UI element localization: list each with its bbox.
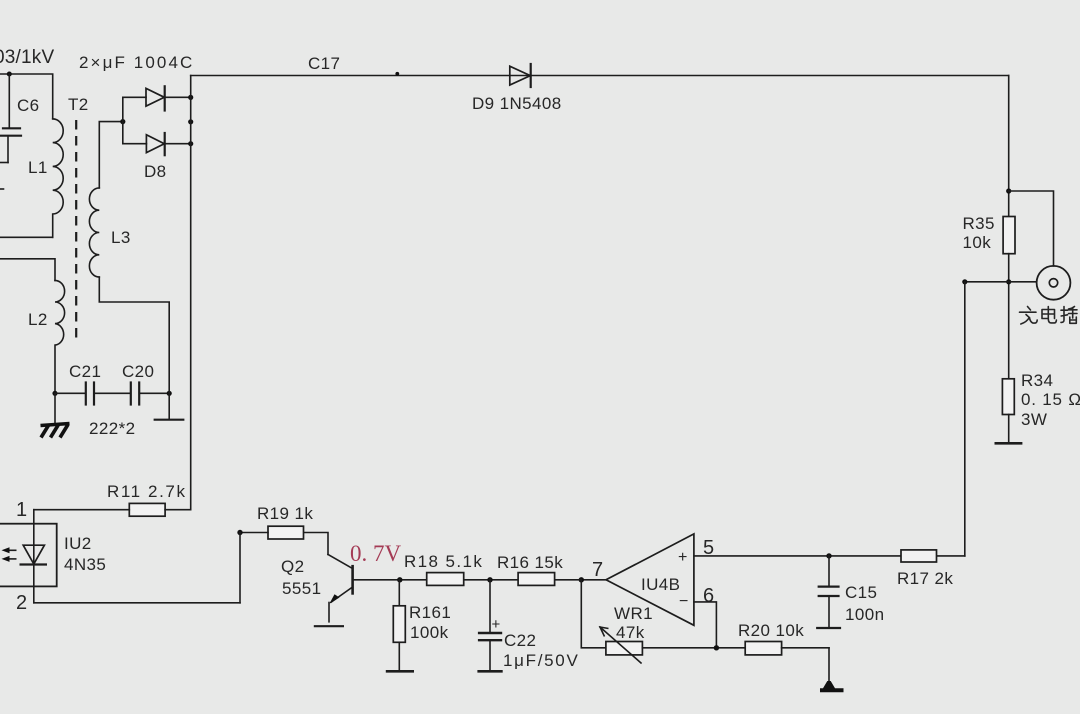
- wire R19 to Q2 base: [304, 533, 329, 555]
- resistor R20: [738, 621, 829, 655]
- transistor Q2: [281, 554, 353, 621]
- wire L1 bottom to edge: [0, 236, 53, 238]
- svg-text:4N35: 4N35: [64, 555, 106, 574]
- capacitor C15: [817, 556, 884, 628]
- wire L3 bottom link: [99, 277, 169, 393]
- node bridge left junction: [120, 119, 125, 124]
- node sense junction: [962, 279, 967, 284]
- svg-text:+: +: [492, 616, 501, 633]
- svg-text:222*2: 222*2: [89, 419, 135, 438]
- connector charge plug: [1037, 266, 1071, 300]
- diode D8 lower: [123, 133, 191, 181]
- node bridge out top: [188, 95, 193, 100]
- label 03/1kV: [0, 47, 54, 68]
- svg-text:R20 10k: R20 10k: [738, 621, 804, 640]
- svg-text:R16 15k: R16 15k: [497, 553, 563, 572]
- svg-text:100k: 100k: [410, 623, 449, 642]
- svg-text:−: −: [679, 593, 688, 610]
- node pin7 junction: [579, 577, 584, 582]
- diode D8 upper: [123, 86, 191, 110]
- svg-text:R11 2.7k: R11 2.7k: [107, 482, 187, 501]
- svg-text:R34: R34: [1021, 371, 1053, 390]
- potentiometer WR1: [600, 604, 653, 663]
- ground bar under Q2: [315, 625, 343, 627]
- svg-text:WR1: WR1: [614, 604, 653, 623]
- resistor R16: [497, 553, 563, 585]
- wire WR1 to node: [642, 647, 745, 649]
- svg-text:C15: C15: [845, 583, 877, 602]
- svg-text:C21: C21: [69, 362, 101, 381]
- svg-text:Q2: Q2: [281, 557, 304, 576]
- label 222*2: [89, 419, 135, 438]
- svg-text:5551: 5551: [282, 579, 321, 598]
- svg-text:L3: L3: [111, 228, 131, 247]
- label 2xuF 1004C: [79, 53, 194, 72]
- node C15 junction: [826, 553, 831, 558]
- svg-text:0. 7V: 0. 7V: [350, 541, 402, 566]
- svg-text:7: 7: [592, 559, 603, 581]
- wire L2 top from edge: [0, 259, 55, 281]
- diode D9 1N5408: [472, 64, 562, 113]
- svg-text:2: 2: [16, 592, 27, 614]
- svg-text:47k: 47k: [616, 623, 645, 642]
- svg-text:IU2: IU2: [64, 534, 92, 553]
- ground bar under C22: [477, 670, 502, 673]
- node feedback junction: [714, 645, 719, 650]
- svg-text:C17: C17: [308, 54, 340, 73]
- svg-text:L1: L1: [28, 158, 48, 177]
- node small dot on C17 wire: [395, 72, 399, 76]
- resistor R35: [963, 214, 1016, 379]
- arrows LED emission: [2, 547, 16, 562]
- ground chassis hatched: [41, 393, 70, 437]
- resistor R11: [107, 482, 187, 516]
- wire opto pin1 row: [16, 499, 191, 521]
- resistor R34: [1002, 371, 1080, 442]
- label C17: [308, 54, 340, 73]
- wire DC rail vertical: [190, 76, 192, 510]
- svg-text:R161: R161: [409, 603, 451, 622]
- svg-text:C22: C22: [504, 631, 536, 650]
- svg-text:C20: C20: [122, 362, 154, 381]
- pin 6: [694, 585, 717, 648]
- inductor L1: [28, 119, 63, 238]
- svg-text:10k: 10k: [963, 233, 992, 252]
- inductor L3: [89, 188, 130, 277]
- node C20 right junction: [167, 391, 172, 396]
- label charge plug chinese: [1020, 307, 1078, 325]
- node top-left junction: [7, 72, 12, 77]
- capacitor C21: [55, 362, 101, 405]
- svg-text:R35: R35: [963, 214, 995, 233]
- svg-text:T2: T2: [68, 95, 89, 114]
- svg-text:L2: L2: [28, 310, 48, 329]
- ground bar under R34: [995, 442, 1023, 445]
- wire junction row to plug: [965, 281, 1037, 283]
- resistor R19: [240, 504, 313, 539]
- ground bar right of 222*2: [155, 393, 184, 419]
- inductor L2: [28, 280, 65, 393]
- svg-text:6: 6: [703, 585, 714, 607]
- ground bar under R161: [386, 670, 414, 673]
- node R35 top junction: [1006, 188, 1011, 193]
- svg-text:+: +: [678, 549, 687, 566]
- wire bridge left vertical: [122, 97, 124, 143]
- node L2 ground junction: [52, 391, 57, 396]
- svg-text:R19 1k: R19 1k: [257, 504, 313, 523]
- svg-text:D8: D8: [144, 162, 167, 181]
- transformer T2 core: [68, 95, 89, 341]
- svg-text:R18 5.1k: R18 5.1k: [404, 552, 483, 571]
- resistor R17: [897, 550, 953, 588]
- svg-text:C6: C6: [17, 96, 40, 115]
- wire feedback left drop: [581, 580, 606, 648]
- svg-text:5: 5: [703, 537, 714, 559]
- pin 5: [703, 537, 714, 559]
- capacitor C20: [94, 362, 169, 405]
- svg-text:03/1kV: 03/1kV: [0, 47, 54, 68]
- node bridge out mid: [188, 119, 193, 124]
- node bridge out bottom: [188, 141, 193, 146]
- wire opto pin2 row: [16, 592, 240, 614]
- wire L3 top to bridge: [99, 122, 123, 188]
- wire R17 row: [694, 555, 965, 557]
- label 0.7V: [350, 541, 402, 566]
- resistor R18: [404, 552, 483, 585]
- svg-text:R17 2k: R17 2k: [897, 569, 953, 588]
- wire right column down: [1008, 76, 1010, 217]
- wire sense column down: [964, 282, 966, 556]
- op-amp U4B: [606, 534, 694, 625]
- node Q2 collector junction: [397, 577, 402, 582]
- optocoupler U2: [0, 510, 106, 603]
- wire to charge plug top: [1009, 191, 1054, 266]
- node R35 bottom junction: [1006, 279, 1011, 284]
- svg-text:100n: 100n: [845, 605, 884, 624]
- svg-text:1: 1: [16, 499, 27, 521]
- ground wedge under R20: [820, 648, 844, 693]
- node R18 right junction: [487, 577, 492, 582]
- resistor R161: [393, 580, 451, 670]
- wire opto pin2 riser: [239, 533, 241, 603]
- svg-text:IU4B: IU4B: [641, 575, 680, 594]
- svg-text:D9 1N5408: D9 1N5408: [472, 94, 562, 113]
- node R19 left junction: [237, 530, 242, 535]
- wire opamp out row: [353, 579, 582, 581]
- svg-text:2×μF 1004C: 2×μF 1004C: [79, 53, 194, 72]
- wire top-left rail: [0, 74, 53, 119]
- edge mark cut label: [0, 188, 4, 190]
- svg-text:3W: 3W: [1021, 410, 1047, 429]
- capacitor C22: [478, 580, 580, 670]
- wire top rail C17: [191, 75, 1009, 77]
- capacitor C6: [0, 74, 40, 163]
- svg-text:0. 15 Ω: 0. 15 Ω: [1021, 390, 1080, 409]
- svg-text:1μF/50V: 1μF/50V: [503, 651, 580, 670]
- pin 7: [581, 559, 606, 581]
